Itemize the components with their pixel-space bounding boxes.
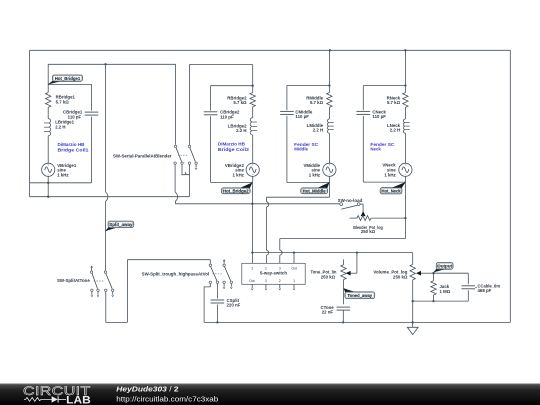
svg-text:1: 1 [251,266,253,270]
svg-text:2.2 H: 2.2 H [313,128,323,133]
svg-text:5.7 kΩ: 5.7 kΩ [233,100,247,105]
svg-text:5.7 kΩ: 5.7 kΩ [56,100,70,105]
svg-text:468 pF: 468 pF [478,288,492,293]
svg-text:http://circuitlab.com/c7c3xab: http://circuitlab.com/c7c3xab [116,395,218,404]
svg-text:Split_away: Split_away [109,222,133,227]
svg-text:5.7 kΩ: 5.7 kΩ [310,100,324,105]
svg-text:250 kΩ: 250 kΩ [361,229,376,234]
svg-text:22 nF: 22 nF [322,310,334,315]
svg-text:LAB: LAB [66,394,91,405]
svg-text:SW-no-load: SW-no-load [338,198,363,203]
svg-text:Out: Out [249,279,254,283]
svg-text:Toned_away: Toned_away [348,293,373,298]
svg-text:250 kΩ: 250 kΩ [321,274,336,279]
svg-text:250 kΩ: 250 kΩ [393,275,408,280]
svg-text:2.2 H: 2.2 H [55,125,65,130]
svg-text:110 pF: 110 pF [295,114,309,119]
svg-text:1 kHz: 1 kHz [57,173,69,178]
svg-text:1: 1 [293,279,295,283]
svg-text:Output: Output [437,264,452,269]
svg-text:1 MΩ: 1 MΩ [440,289,451,294]
svg-text:Hot_Bridge2: Hot_Bridge2 [223,189,249,194]
svg-text:Bridge Coil2: Bridge Coil2 [218,147,250,152]
svg-text:Middle: Middle [294,147,308,152]
svg-text:1 kHz: 1 kHz [384,172,396,177]
svg-text:2: 2 [279,279,281,283]
svg-text:HeyDude303 / 2: HeyDude303 / 2 [116,384,178,393]
svg-text:3: 3 [265,279,267,283]
svg-text:1 kHz: 1 kHz [309,173,321,178]
svg-text:2.2 H: 2.2 H [236,128,246,133]
svg-text:220 nF: 220 nF [227,303,241,308]
svg-text:5-way-switch: 5-way-switch [260,270,287,275]
svg-text:1 kHz: 1 kHz [233,173,245,178]
svg-text:SW-SplitAtTone: SW-SplitAtTone [57,278,90,283]
svg-text:SW-Split_trough_highpassAtVol: SW-Split_trough_highpassAtVol [142,272,210,277]
svg-text:Hot_Middle: Hot_Middle [303,189,326,194]
svg-text:SW-Serial-ParallelAtBlender: SW-Serial-ParallelAtBlender [113,153,172,158]
svg-text:Out: Out [291,266,296,270]
svg-text:110 pF: 110 pF [220,114,234,119]
svg-text:5.7 kΩ: 5.7 kΩ [387,100,401,105]
svg-text:Bridge Coil1: Bridge Coil1 [58,147,90,152]
svg-text:2.2 H: 2.2 H [390,128,400,133]
svg-text:Hot_Bridge1: Hot_Bridge1 [55,76,81,81]
svg-text:Hot_Neck: Hot_Neck [382,189,401,194]
svg-text:Neck: Neck [370,147,381,152]
svg-text:110 pF: 110 pF [372,114,386,119]
